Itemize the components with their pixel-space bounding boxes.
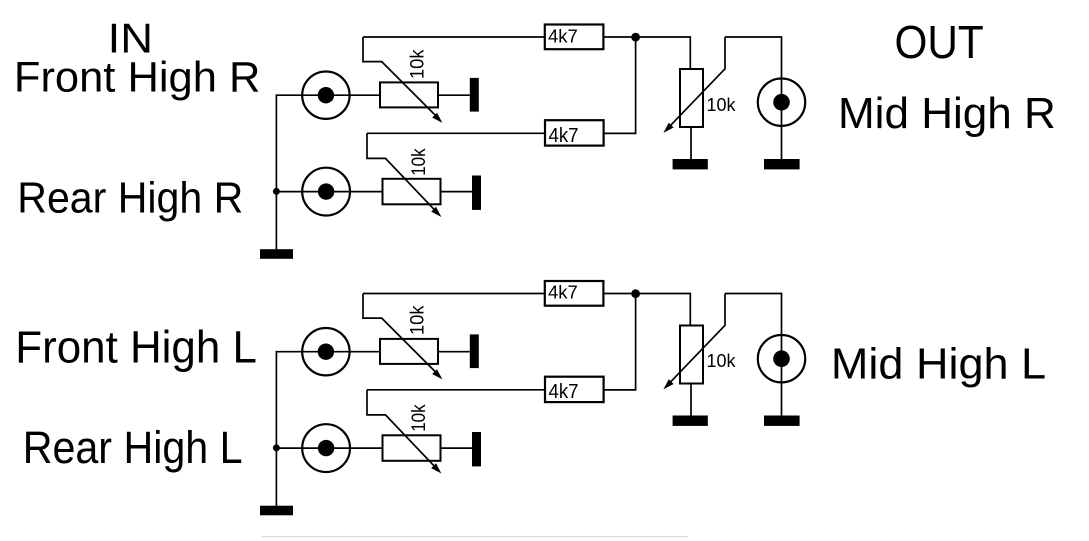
- svg-text:4k7: 4k7: [549, 380, 579, 403]
- svg-text:OUT: OUT: [895, 16, 984, 68]
- svg-text:10k: 10k: [407, 49, 428, 79]
- svg-text:10k: 10k: [409, 404, 430, 432]
- svg-text:4k7: 4k7: [549, 124, 579, 147]
- svg-text:Rear High L: Rear High L: [23, 422, 243, 473]
- svg-text:10k: 10k: [707, 95, 737, 115]
- svg-text:Rear High R: Rear High R: [17, 173, 243, 222]
- svg-text:Front High R: Front High R: [14, 53, 261, 101]
- svg-text:Mid High R: Mid High R: [838, 89, 1056, 138]
- svg-text:Mid High L: Mid High L: [831, 339, 1046, 388]
- svg-text:Front High L: Front High L: [15, 321, 257, 372]
- svg-text:4k7: 4k7: [548, 26, 578, 47]
- svg-text:10k: 10k: [407, 305, 428, 335]
- svg-text:4k7: 4k7: [548, 282, 578, 303]
- svg-text:10k: 10k: [409, 148, 430, 176]
- svg-text:10k: 10k: [707, 351, 737, 371]
